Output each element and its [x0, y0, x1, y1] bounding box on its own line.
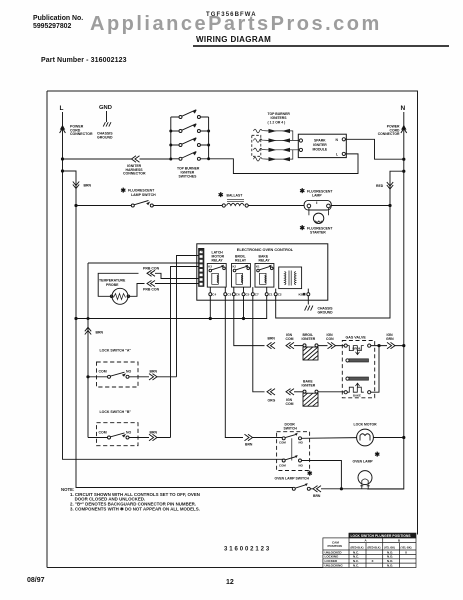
wire KB to chassis ground — [307, 296, 309, 305]
lock switch table header bar — [349, 533, 416, 538]
svg-text:C7: C7 — [255, 293, 259, 297]
broil valve coil — [344, 344, 347, 347]
EOC terminal C4 — [209, 287, 211, 293]
bake igniter — [303, 390, 306, 393]
top burner igniter 1 — [254, 129, 293, 140]
connector IGN COM bake row — [286, 389, 294, 395]
wire lock motor to N bus — [373, 437, 403, 439]
svg-text:GAS VALVE: GAS VALVE — [346, 336, 367, 340]
ground chassis symbol (EOC) — [305, 306, 313, 311]
wire fluorescent lamp switch row — [76, 205, 132, 207]
svg-text:NO: NO — [126, 430, 132, 434]
junction red fluorescent row — [388, 204, 391, 207]
junction lock A tap — [86, 375, 89, 378]
svg-text:IGNITER: IGNITER — [302, 383, 316, 387]
svg-text:COM: COM — [286, 337, 294, 341]
ballast symbol — [222, 204, 225, 207]
EOC terminal C5 — [243, 287, 245, 293]
svg-text:CONNECTOR: CONNECTOR — [70, 132, 93, 136]
top burner igniter 3 — [254, 148, 300, 152]
fluorescent starter — [309, 208, 329, 216]
ground chassis symbol (top) — [103, 122, 111, 126]
svg-text:SWITCHES: SWITCHES — [179, 175, 198, 179]
bake valve coil — [344, 391, 347, 394]
junction bus dots — [169, 130, 172, 133]
wire switch bank output to spark module L — [209, 154, 358, 174]
fluorescent lamp switch — [131, 204, 134, 207]
svg-text:N.C.: N.C. — [353, 563, 359, 567]
svg-text:UNLOCKED: UNLOCKED — [325, 550, 343, 554]
door switch upper pole — [282, 437, 285, 440]
svg-text:COM: COM — [279, 463, 286, 467]
svg-text:(YEL-BK): (YEL-BK) — [401, 547, 412, 550]
svg-text:RELAY: RELAY — [259, 258, 271, 262]
svg-text:N.O.: N.O. — [387, 563, 393, 567]
svg-text:BROIL: BROIL — [353, 346, 362, 350]
svg-text:✱: ✱ — [307, 470, 313, 478]
svg-text:C2: C2 — [278, 293, 282, 297]
connector BRN lock A (right chevrons) — [149, 374, 157, 380]
svg-text:ELECTRONIC OVEN CONTROL: ELECTRONIC OVEN CONTROL — [237, 248, 294, 252]
svg-text:(RED-BLK): (RED-BLK) — [351, 547, 364, 550]
relay broil (K2) box — [232, 264, 251, 288]
svg-text:GRN: GRN — [386, 337, 394, 341]
spark igniter module box — [298, 134, 346, 157]
wire lamp switch to connector — [310, 488, 341, 490]
wire EOC pin to 318 net — [88, 262, 199, 264]
svg-text:COM: COM — [99, 370, 107, 374]
temperature probe body — [112, 288, 128, 304]
electronic oven control box — [197, 244, 328, 300]
svg-text:LOCK SWITCH "A": LOCK SWITCH "A" — [100, 349, 132, 353]
svg-text:IGNITER: IGNITER — [302, 337, 316, 341]
svg-text:C5: C5 — [246, 293, 250, 297]
wire lock A com lead — [88, 376, 108, 378]
svg-text:BRN: BRN — [150, 370, 158, 374]
svg-text:N.O.: N.O. — [387, 550, 393, 554]
svg-text:OVEN LAMP: OVEN LAMP — [353, 460, 374, 464]
connector BRN (up chevrons on lock feed) — [85, 327, 91, 334]
svg-text:BRN: BRN — [313, 494, 321, 498]
junction L brn branch — [61, 169, 64, 172]
lock switch A box (dashed) — [97, 362, 139, 387]
riser lock A to EOC — [177, 256, 200, 377]
oven lamp — [358, 471, 372, 485]
door switch lower pole — [282, 459, 285, 462]
svg-text:RED: RED — [376, 184, 384, 188]
EOC terminal C2 — [275, 289, 277, 293]
wire C7 down to bake igniter row — [253, 296, 265, 392]
relay bake (K1) box — [255, 264, 274, 288]
riser lock B to EOC — [171, 267, 200, 438]
svg-text:LOCK SWITCH PLUNGER POSITIONS: LOCK SWITCH PLUNGER POSITIONS — [351, 534, 411, 538]
lock motor — [357, 429, 374, 446]
wire PRB lower to EOC — [155, 283, 199, 285]
svg-text:B: B — [398, 539, 401, 543]
fluorescent lamp — [304, 200, 331, 210]
svg-text:X: X — [405, 550, 407, 554]
svg-text:N: N — [336, 138, 339, 142]
relay latch motor (K3) box — [207, 264, 226, 288]
title underline rule — [193, 45, 449, 47]
connector BRN broil row — [267, 342, 275, 348]
EOC terminal KB — [307, 289, 309, 293]
N bus vertical — [367, 112, 404, 489]
svg-text:BRN: BRN — [84, 184, 92, 188]
EOC terminal C7 — [252, 287, 254, 293]
svg-text:C4: C4 — [212, 293, 216, 297]
svg-text:ORG: ORG — [268, 399, 276, 403]
door switch pole link — [291, 438, 293, 460]
svg-text:NO: NO — [126, 370, 132, 374]
wire bake igniter to valve — [318, 391, 344, 393]
red wire from N bus — [276, 171, 404, 318]
watermark AppliancePartsPros.com — [90, 13, 382, 36]
svg-text:PRB CON: PRB CON — [143, 287, 160, 291]
wire L bus vertical — [63, 112, 284, 459]
svg-text:( 1 2 OR 4 ): ( 1 2 OR 4 ) — [268, 120, 286, 124]
temperature probe loop — [98, 273, 138, 296]
junction N module — [402, 158, 405, 161]
connector broil-valve (right chevrons) — [328, 342, 336, 348]
svg-text:K2: K2 — [233, 264, 237, 268]
module terminal pins — [299, 139, 302, 142]
svg-text:C3: C3 — [227, 293, 231, 297]
wire lamp leads on bottom bus — [341, 488, 403, 490]
wire C3 down to door switch — [225, 296, 243, 438]
wire lock B com lead — [88, 437, 108, 439]
connector PRB CON upper — [147, 270, 155, 276]
wire C6 down to broil igniter row — [234, 296, 265, 346]
power cord connector (L side) — [60, 125, 65, 130]
model number — [206, 12, 257, 18]
EOC pin strip connector — [199, 248, 205, 286]
svg-text:STARTER: STARTER — [310, 231, 326, 235]
svg-text:BAKE: BAKE — [353, 394, 361, 398]
connector ORG bake row — [267, 389, 275, 395]
svg-text:✱: ✱ — [300, 224, 306, 232]
svg-text:COM: COM — [99, 430, 107, 434]
svg-text:LOCK MOTOR: LOCK MOTOR — [354, 423, 378, 427]
svg-text:LAMP SWITCH: LAMP SWITCH — [131, 193, 156, 197]
svg-text:BRN: BRN — [245, 442, 253, 446]
wire broil igniter to valve — [318, 345, 344, 347]
junction relay feed tap — [74, 317, 77, 320]
svg-text:(RED-BLK): (RED-BLK) — [368, 547, 381, 550]
wire lock B output — [129, 437, 171, 439]
wire ballast to fluorescent lamp — [248, 205, 304, 207]
junction lock feed on 318 net — [87, 317, 90, 320]
footer page number — [226, 579, 234, 586]
wire PRB upper to EOC — [155, 273, 199, 278]
connector RED (down chevrons) — [387, 182, 393, 189]
top burner switch bank right bus — [208, 117, 210, 159]
svg-text:RELAY: RELAY — [235, 258, 247, 262]
igniter switch 2 — [171, 124, 209, 131]
svg-text:A: A — [365, 539, 368, 543]
wire GND lead — [106, 111, 108, 122]
door switch dashed box — [277, 432, 310, 471]
lock switch B box (dashed) — [97, 423, 139, 446]
svg-text:COM: COM — [286, 402, 294, 406]
svg-text:LOCK SWITCH "B": LOCK SWITCH "B" — [100, 410, 132, 414]
lock switch table outer box — [323, 538, 416, 568]
footer date — [27, 577, 45, 584]
svg-text:L: L — [60, 105, 64, 112]
svg-text:BRN: BRN — [96, 331, 104, 335]
broil igniter — [303, 344, 306, 347]
igniter switch 1 — [171, 110, 209, 117]
svg-text:C6: C6 — [236, 293, 240, 297]
connector igniter switch (chevrons) — [132, 156, 140, 162]
SECTIONS — [60, 105, 294, 488]
connector IGN COM broil row — [286, 342, 294, 348]
lock feed vertical x=88 — [87, 263, 89, 438]
lock switch A contacts — [108, 375, 111, 378]
svg-text:BALLAST: BALLAST — [227, 194, 244, 198]
svg-text:SWITCH: SWITCH — [284, 426, 298, 430]
connector BRN door row — [245, 434, 253, 440]
wire lock A output — [129, 376, 177, 378]
svg-text:OVEN LAMP SWITCH: OVEN LAMP SWITCH — [275, 477, 310, 481]
svg-text:LAMP: LAMP — [312, 194, 322, 198]
svg-text:N.C.: N.C. — [353, 550, 359, 554]
broil sensor bar — [346, 359, 349, 362]
wire main L feed to switch bank — [63, 158, 171, 160]
connector valve-N (right chevrons) — [387, 342, 395, 348]
svg-text:P8: P8 — [199, 249, 203, 253]
wire broil row to igniter — [294, 345, 303, 347]
igniter switch 3 — [171, 138, 209, 145]
EOC terminal C1 — [266, 287, 268, 293]
top burner igniter 4 — [254, 150, 293, 161]
wire bake row to igniter — [294, 391, 303, 393]
transformer — [279, 267, 302, 289]
connector PRB CON lower — [147, 281, 155, 287]
svg-text:GROUND: GROUND — [97, 136, 113, 140]
wire C4 down to L net — [209, 296, 211, 319]
svg-text:NO: NO — [299, 441, 304, 445]
wire switch to ballast — [153, 205, 222, 207]
svg-text:GROUND: GROUND — [318, 311, 334, 315]
EOC terminal C3 — [224, 287, 226, 293]
power cord connector (N side) — [401, 125, 406, 130]
publication number — [33, 15, 83, 31]
svg-text:NO: NO — [299, 463, 304, 467]
svg-text:CONNECTOR: CONNECTOR — [123, 172, 146, 176]
svg-text:✱: ✱ — [218, 191, 224, 199]
wire module N to N bus — [345, 139, 403, 159]
svg-text:PRB CON: PRB CON — [143, 266, 160, 270]
svg-text:C1: C1 — [269, 293, 273, 297]
svg-text:3. COMPONENTS WITH ✱ DO NOT A: 3. COMPONENTS WITH ✱ DO NOT APPEAR ON AL… — [70, 506, 200, 511]
svg-text:PROBE: PROBE — [106, 283, 119, 287]
svg-text:RELAY: RELAY — [212, 258, 224, 262]
svg-text:GND: GND — [99, 105, 112, 111]
bake sensor bar — [346, 377, 349, 380]
svg-text:UNLOCKING: UNLOCKING — [325, 563, 344, 567]
top burner igniter 2 — [254, 139, 300, 143]
top burner switch bank left bus — [170, 117, 172, 159]
relay feed wire (left net y=318.5) — [76, 296, 267, 319]
EOC terminal C6 — [233, 287, 235, 293]
valve common wire to N bus — [371, 346, 404, 393]
svg-text:K3: K3 — [208, 264, 212, 268]
wire fluorescent lamp to red wire — [332, 205, 391, 207]
svg-text:316002123: 316002123 — [224, 547, 271, 553]
connector BRN (down chevrons on x76) — [73, 182, 79, 189]
svg-text:SPARK: SPARK — [314, 139, 326, 143]
svg-text:BRN: BRN — [150, 430, 158, 434]
svg-text:X: X — [372, 559, 374, 563]
wire C5 down to L net — [243, 296, 245, 319]
svg-text:✱: ✱ — [121, 187, 127, 195]
gas valve dashed box — [342, 341, 374, 398]
oven lamp switch — [292, 487, 295, 490]
WIRING DIAGRAM title — [196, 35, 271, 44]
svg-text:K1: K1 — [256, 264, 260, 268]
svg-text:N: N — [401, 105, 406, 112]
svg-text:IGNITER: IGNITER — [313, 143, 327, 147]
svg-text:CON: CON — [326, 337, 334, 341]
junction fluorescent switch tap — [74, 204, 77, 207]
igniter switch 4 — [171, 152, 209, 159]
svg-text:(YEL-BK): (YEL-BK) — [384, 547, 395, 550]
connector BRN oven lamp (left chevrons) — [313, 486, 321, 492]
junction N red tap — [402, 170, 405, 173]
svg-text:COM: COM — [279, 441, 286, 445]
wire brn branch — [63, 171, 294, 488]
svg-text:POSITION: POSITION — [328, 544, 342, 548]
wire door lower NO to lamp net — [302, 461, 342, 489]
wire connector to door switch — [253, 437, 283, 439]
svg-text:L: L — [336, 153, 338, 157]
connector BRN lock B (right chevrons) — [149, 434, 157, 440]
part number line — [41, 57, 127, 64]
igniters dashed box — [252, 135, 261, 156]
wire door NO to lock motor — [302, 437, 357, 440]
diagram border frame — [47, 91, 418, 568]
junction L main — [61, 157, 64, 160]
svg-text:BRN: BRN — [268, 337, 276, 341]
table grid lines — [323, 533, 416, 567]
svg-text:✱: ✱ — [300, 187, 306, 195]
svg-text:CONNECTOR: CONNECTOR — [378, 132, 400, 136]
svg-text:MODULE: MODULE — [313, 148, 328, 152]
svg-text:✱: ✱ — [375, 451, 381, 459]
lock switch B contacts — [108, 436, 111, 439]
